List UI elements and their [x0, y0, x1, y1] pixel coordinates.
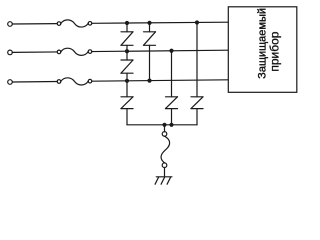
- wire L1 left: [12, 23, 57, 25]
- arrester F1 (L1-L2, col A): [121, 23, 133, 51]
- wire col D down: [196, 22, 198, 96]
- protected device box U1: [228, 7, 296, 93]
- arrester F2 (L2-L3, col A): [121, 51, 133, 81]
- node A2 (L2 x127): [125, 49, 129, 53]
- node D1 (L1 x197): [195, 20, 199, 24]
- node A3 (L3 x127): [125, 79, 129, 83]
- fuse FU4 (earthing link): [161, 132, 170, 168]
- wire bus to fuse FU4: [164, 125, 166, 132]
- fuse FU3: [57, 78, 92, 85]
- ground: [155, 177, 172, 184]
- wire col C down: [171, 51, 173, 97]
- wire L3 right: [92, 80, 229, 81]
- svg-text:прибор: прибор: [268, 31, 282, 71]
- terminal L3: [8, 80, 13, 85]
- terminal L2: [8, 50, 13, 55]
- wire L2 right: [92, 50, 229, 51]
- wire L3 left: [12, 81, 57, 83]
- node B3 (L3 x149.5): [147, 79, 151, 83]
- wire col B down to L3: [149, 45, 151, 80]
- arrester F3 (L3-earth bus, col A): [121, 81, 133, 125]
- node A1 (L1 x127): [125, 21, 129, 25]
- node C2 (L2 x171.5): [169, 49, 173, 53]
- wire L2 left: [12, 51, 57, 53]
- fuse FU1: [57, 20, 92, 27]
- node E1 (bus tap): [162, 123, 166, 127]
- wire to ground: [164, 168, 166, 177]
- node B1 (L1 x149.5): [147, 21, 151, 25]
- earth bus wire: [127, 124, 197, 126]
- arrester F4 (L1-L3, col B): [144, 23, 156, 45]
- node E2 (bus x171.5): [169, 123, 173, 127]
- arrester F6 (L1-earth bus, col D): [191, 97, 203, 125]
- terminal L1: [8, 22, 13, 27]
- arrester F5 (L2-earth bus, col C): [166, 97, 178, 125]
- wire L1 right: [92, 22, 229, 23]
- fuse FU2: [57, 48, 92, 55]
